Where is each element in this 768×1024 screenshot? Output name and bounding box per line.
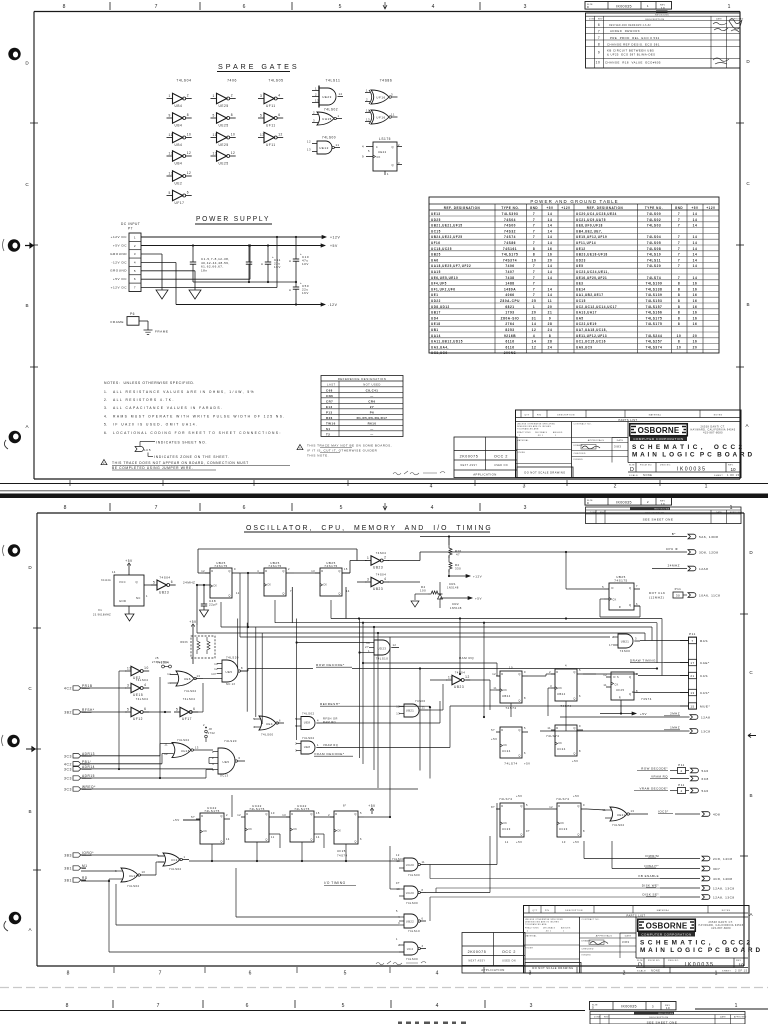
svg-text:Q: Q	[282, 592, 284, 596]
+5V pullup network	[180, 620, 215, 664]
svg-text:13: 13	[213, 151, 218, 155]
svg-text:RN06: RN06	[180, 641, 188, 644]
svg-text:9: 9	[549, 316, 551, 320]
sprocket hole bottom-left	[4, 431, 21, 449]
svg-text:74LS02: 74LS02	[302, 736, 315, 740]
spare inverter UF17 pins 5/6	[167, 190, 192, 205]
svg-text:MATERIAL: MATERIAL	[525, 935, 537, 938]
OR gate UE21 74LS02 ioc5	[602, 807, 636, 827]
svg-text:14: 14	[548, 264, 553, 268]
svg-text:DO NOT SCALE DRAWING: DO NOT SCALE DRAWING	[524, 471, 565, 475]
svg-text:74LS00: 74LS00	[406, 901, 418, 905]
svg-text:8: 8	[422, 889, 424, 892]
spare inverter UE25 pins 11/10	[211, 132, 236, 147]
svg-text:74LS02: 74LS02	[169, 867, 182, 871]
svg-text:9: 9	[234, 567, 236, 571]
svg-text:5: 5	[176, 707, 178, 711]
svg-text:& UF25 ECO 587 BL/MA-DES: & UF25 ECO 587 BL/MA-DES	[607, 53, 655, 57]
capacitor C48 22pF	[201, 598, 218, 610]
svg-text:9: 9	[524, 670, 526, 674]
svg-text:3: 3	[367, 577, 369, 581]
svg-text:8: 8	[579, 749, 581, 753]
svg-text:CHANGE REF DESIG. ECO 581: CHANGE REF DESIG. ECO 581	[607, 42, 660, 46]
sheet 2 revisions strip SEE SHEET ONE	[586, 507, 743, 524]
svg-text:UC24: UC24	[557, 747, 566, 751]
svg-text:DO NOT SCALE DRAWING: DO NOT SCALE DRAWING	[532, 966, 573, 970]
svg-text:11: 11	[422, 861, 426, 864]
svg-text:DATE: DATE	[720, 1016, 726, 1019]
svg-text:1: 1	[728, 4, 731, 10]
inverter UF12 74LS04	[125, 697, 149, 721]
svg-text:—: —	[370, 432, 373, 436]
sheet 2 top ruler	[64, 503, 733, 511]
svg-text:2: 2	[313, 111, 315, 115]
svg-text:2: 2	[231, 94, 233, 98]
svg-text:74LS04: 74LS04	[183, 697, 196, 701]
svg-text:CHECKED: CHECKED	[582, 949, 594, 951]
svg-text:6: 6	[187, 191, 189, 195]
I/O timing flip-flop UC22 74LS175 first	[191, 806, 230, 844]
svg-text:8: 8	[63, 4, 66, 10]
OSBORNE logo	[629, 423, 735, 441]
svg-text:UF11,UF14: UF11,UF14	[576, 241, 596, 245]
svg-text:74S00: 74S00	[620, 649, 631, 653]
svg-text:D: D	[592, 1006, 594, 1010]
svg-text:REVISIONS: REVISIONS	[654, 509, 669, 511]
svg-text:5A6: 5A6	[702, 789, 709, 793]
svg-text:6: 6	[598, 23, 600, 27]
svg-text:2: 2	[647, 500, 649, 504]
svg-text:.XX 1: .XX 1	[537, 435, 543, 437]
NAND gate UC20 74LS00 a	[392, 854, 426, 877]
svg-text:74LS10: 74LS10	[408, 929, 420, 933]
svg-text:(12MHZ): (12MHZ)	[649, 596, 664, 600]
svg-text:S C H E M A T I C , O C C 2: S C H E M A T I C , O C C 2	[640, 940, 751, 947]
svg-text:INDICATES ZONE ON THE SHEET.: INDICATES ZONE ON THE SHEET.	[154, 455, 230, 459]
svg-text:DESCRIPTION: DESCRIPTION	[645, 19, 664, 21]
input flag IORQ* 3B3	[64, 851, 94, 858]
sprocket hole top-left	[8, 48, 20, 60]
sprocket hole mid-left with arrow	[3, 239, 34, 252]
svg-text:D: D	[587, 5, 589, 9]
svg-text:7: 7	[678, 241, 680, 245]
svg-text:5: 5	[127, 707, 129, 711]
svg-text:21: 21	[690, 674, 694, 678]
svg-text:2: 2	[549, 670, 551, 674]
svg-text:4: 4	[212, 762, 214, 766]
svg-text:8: 8	[549, 334, 551, 338]
wire verticals dropping to decode cluster	[238, 619, 662, 818]
svg-text:5: 5	[524, 726, 526, 730]
svg-text:UB1: UB1	[431, 328, 439, 332]
svg-text:12: 12	[396, 854, 400, 857]
svg-text:B: B	[749, 793, 752, 798]
svg-text:10: 10	[144, 666, 149, 670]
separator band black between sheet1 and sheet2	[0, 494, 768, 499]
svg-text:5A6: 5A6	[702, 769, 709, 773]
application block	[462, 933, 525, 974]
svg-text:4: 4	[533, 334, 535, 338]
svg-text:APPLICATION: APPLICATION	[481, 968, 505, 972]
inverter UB23 74S04 ram rq	[446, 671, 470, 690]
svg-text:25: 25	[532, 299, 537, 303]
svg-text:CK: CK	[558, 743, 562, 745]
svg-text:Q: Q	[228, 594, 230, 598]
svg-text:14: 14	[693, 241, 698, 245]
svg-text:10V: 10V	[302, 262, 309, 266]
svg-text:14: 14	[693, 218, 698, 222]
svg-text:6: 6	[243, 505, 246, 511]
svg-text:16V: 16V	[302, 291, 309, 295]
svg-text:Q: Q	[310, 812, 312, 816]
svg-text:9: 9	[579, 724, 581, 728]
svg-text:3D7: 3D7	[713, 867, 720, 871]
svg-text:P O W E R A N D G R O U N: P O W E R A N D G R O U N D T A B L E	[530, 199, 617, 204]
svg-text:A: A	[745, 423, 749, 428]
svg-text:5?: 5?	[191, 815, 196, 819]
svg-text:9?: 9?	[526, 829, 531, 833]
svg-text:7: 7	[290, 589, 292, 593]
svg-text:P11: P11	[689, 632, 696, 636]
svg-text:UE2: UE2	[175, 182, 183, 186]
svg-text:UD4: UD4	[431, 316, 439, 320]
svg-text:20: 20	[548, 258, 553, 262]
svg-text:Q: Q	[629, 675, 631, 679]
svg-text:+5V: +5V	[125, 559, 133, 563]
svg-text:CK: CK	[337, 830, 341, 832]
svg-text:NOT USED: NOT USED	[363, 383, 381, 387]
wire ram rq horizontal	[362, 662, 500, 710]
divider flip-flop UB25 74S175 second	[257, 561, 294, 596]
svg-text:A: A	[289, 288, 291, 292]
svg-text:7406: 7406	[505, 264, 514, 268]
svg-text:DATE: DATE	[617, 439, 624, 442]
svg-text:DISK WE*: DISK WE*	[642, 884, 660, 888]
svg-text:31: 31	[532, 316, 537, 320]
svg-text:3B2: 3B2	[64, 711, 72, 715]
svg-text:7: 7	[533, 224, 535, 228]
svg-text:74LS138: 74LS138	[646, 287, 663, 291]
svg-text:2MHZ: 2MHZ	[670, 712, 680, 716]
svg-text:1: 1	[184, 855, 186, 859]
svg-text:D: D	[265, 569, 267, 573]
svg-text:74LS175: 74LS175	[646, 322, 663, 326]
svg-text:DESCRIPTION: DESCRIPTION	[565, 910, 583, 912]
svg-text:D: D	[614, 675, 616, 679]
svg-text:74S74: 74S74	[641, 697, 652, 701]
NAND gate UE5 74LS20 io decode	[212, 739, 245, 778]
wires oscillator section	[196, 549, 420, 627]
svg-text:CONTRACT NO.: CONTRACT NO.	[574, 423, 592, 426]
svg-text:16: 16	[548, 247, 553, 251]
svg-text:4: 4	[680, 789, 682, 793]
label REFRESH*	[320, 702, 347, 706]
label ROW DECODE*	[316, 663, 352, 667]
svg-text:UB23: UB23	[159, 590, 169, 594]
svg-text:D: D	[612, 586, 614, 590]
svg-text:REV: REV	[598, 19, 603, 21]
svg-text:FRACTIONS: FRACTIONS	[517, 431, 531, 434]
label RAM RQ	[459, 656, 474, 660]
svg-text:REVISIONS: REVISIONS	[655, 15, 669, 17]
svg-text:12: 12	[237, 813, 241, 817]
svg-text:12: 12	[231, 151, 236, 155]
svg-text:13: 13	[260, 133, 265, 137]
title block frame	[524, 906, 750, 974]
svg-text:UF16: UF16	[431, 241, 440, 245]
svg-text:74LS04: 74LS04	[136, 678, 149, 682]
connector P7 DC INPUT	[110, 222, 141, 292]
svg-text:UB21: UB21	[406, 709, 414, 713]
svg-text:12: 12	[549, 805, 553, 809]
svg-text:-12V DC: -12V DC	[111, 260, 127, 264]
svg-text:APPROVALS: APPROVALS	[588, 439, 605, 442]
svg-text:NEXT ASSY: NEXT ASSY	[461, 464, 478, 467]
svg-text:PRE PROD REL ECO # 532: PRE PROD REL ECO # 532	[610, 36, 660, 40]
svg-text:74LS00: 74LS00	[406, 957, 418, 961]
svg-text:ALL RESISTANCE VALUES ARE IN O: ALL RESISTANCE VALUES ARE IN OHMS, 1/4W,…	[113, 390, 255, 394]
svg-text:THIS TRACE DOES NOT APPEAR ON: THIS TRACE DOES NOT APPEAR ON BOARD, CON…	[112, 461, 249, 465]
svg-text:R: R	[619, 606, 621, 609]
svg-text:P/N: P/N	[545, 910, 550, 912]
flip-flop UC24 74LS74 lower second	[546, 724, 583, 763]
svg-text:74LS03: 74LS03	[647, 224, 661, 228]
svg-text:74LS175: 74LS175	[294, 807, 310, 811]
svg-text:7: 7	[636, 584, 638, 588]
svg-text:74LS04: 74LS04	[136, 697, 149, 701]
svg-text:D: D	[201, 814, 203, 818]
svg-text:8: 8	[678, 316, 680, 320]
svg-text:9: 9	[598, 51, 600, 55]
svg-text:UE5: UE5	[576, 264, 583, 268]
svg-text:10: 10	[214, 662, 218, 666]
sheet 2 left zone labels	[28, 565, 41, 932]
svg-text:E13: E13	[326, 405, 333, 409]
svg-text:+5V: +5V	[546, 206, 553, 210]
handwritten release note	[393, 471, 445, 475]
svg-text:24MHZ: 24MHZ	[668, 564, 680, 568]
flag CPU phi 3D8 12D8	[420, 547, 719, 554]
svg-text:C: C	[28, 686, 32, 691]
svg-text:FRAME: FRAME	[111, 320, 124, 324]
svg-text:R1,R5,R6-R9,R17: R1,R5,R6-R9,R17	[357, 416, 388, 420]
svg-text:UC24: UC24	[502, 749, 511, 753]
svg-text:CHECKED: CHECKED	[574, 453, 586, 455]
svg-text:74S04: 74S04	[376, 551, 387, 555]
svg-text:CR2: CR2	[452, 602, 459, 606]
I/O timing flip-flop UF25 74S74	[328, 804, 364, 858]
ground symbol right	[189, 290, 201, 299]
svg-text:6C8: 6C8	[702, 777, 709, 781]
svg-text:74S04: 74S04	[504, 218, 516, 222]
svg-text:1: 1	[705, 484, 708, 490]
spare inverter UB4 pins 11/10	[167, 132, 192, 147]
svg-text:9: 9	[362, 155, 364, 159]
svg-text:QTY: QTY	[524, 415, 529, 417]
svg-text:74S86: 74S86	[380, 79, 393, 83]
input flag ADR15 3C3	[64, 774, 95, 781]
spare inverter UF11 pins 3/4	[258, 93, 283, 108]
svg-text:1: 1	[555, 435, 556, 437]
svg-text:UC21: UC21	[171, 858, 180, 862]
svg-text:12A8: 12A8	[699, 567, 708, 571]
svg-text:D: D	[211, 569, 213, 573]
svg-text:13: 13	[197, 674, 201, 678]
svg-text:6: 6	[144, 707, 146, 711]
svg-text:6: 6	[524, 751, 526, 755]
svg-text:11: 11	[164, 743, 168, 747]
svg-text:2 OF 15: 2 OF 15	[735, 968, 748, 972]
svg-text:MUE*: MUE*	[700, 704, 710, 708]
svg-text:UA14: UA14	[431, 334, 441, 338]
svg-text:APPROVALS: APPROVALS	[596, 935, 613, 938]
svg-text:3: 3	[550, 684, 552, 688]
spare inverter UE25 pins 5/8	[211, 113, 236, 128]
svg-text:REF. DESIGNATION: REF. DESIGNATION	[444, 206, 481, 210]
wire +5V rail	[141, 245, 325, 247]
svg-text:2: 2	[103, 462, 105, 465]
svg-text:3: 3	[127, 683, 129, 687]
svg-text:NOTES: NOTES	[714, 415, 723, 417]
svg-text:CK: CK	[248, 829, 252, 831]
svg-text:1.: 1.	[104, 390, 108, 394]
svg-text:LS175: LS175	[379, 137, 391, 141]
svg-text:74LS257: 74LS257	[646, 340, 663, 344]
svg-text:14: 14	[693, 212, 698, 216]
svg-text:74LS74: 74LS74	[556, 797, 569, 801]
svg-text:3: 3	[313, 119, 315, 123]
wire +12V rail	[141, 236, 326, 238]
svg-text:9: 9	[169, 113, 171, 117]
svg-text:ADR15: ADR15	[82, 774, 95, 778]
svg-text:+12V: +12V	[706, 206, 716, 210]
svg-text:USED ON: USED ON	[494, 464, 508, 467]
svg-text:7: 7	[533, 229, 535, 233]
svg-text:UB4: UB4	[175, 143, 183, 147]
input flag PR1B 4C2	[64, 684, 92, 691]
svg-text:11: 11	[169, 133, 173, 137]
svg-text:—: —	[370, 394, 373, 398]
svg-text:16: 16	[693, 287, 698, 291]
svg-text:1: 1	[563, 931, 564, 933]
svg-text:D: D	[749, 550, 753, 555]
flip-flop UB24 74S74 second	[549, 664, 583, 709]
svg-text:10: 10	[396, 888, 400, 891]
svg-text:Q: Q	[573, 752, 575, 756]
svg-text:13: 13	[690, 691, 694, 695]
svg-text:Q: Q	[310, 838, 312, 842]
svg-text:2C8, 14C8: 2C8, 14C8	[713, 857, 733, 861]
svg-text:1C5: 1C5	[144, 448, 151, 452]
drawing number row	[636, 958, 748, 972]
+12V arrow feed	[449, 575, 482, 579]
svg-text:74LS02: 74LS02	[324, 108, 338, 112]
svg-text:8: 8	[678, 293, 680, 297]
svg-text:2: 2	[187, 94, 189, 98]
divider flip-flop UB25 74S175 first	[197, 561, 240, 598]
svg-text:12: 12	[366, 109, 370, 113]
flip-flop UC23 74LS74 right	[549, 794, 587, 844]
svg-text:74LS157: 74LS157	[646, 305, 663, 309]
svg-text:LAST: LAST	[327, 383, 336, 387]
svg-text:UE6,UE5,UE10: UE6,UE5,UE10	[431, 276, 458, 280]
svg-text:12A8, 13C8: 12A8, 13C8	[713, 895, 735, 899]
svg-text:74LS175: 74LS175	[249, 807, 265, 811]
svg-text:UC20,UC4,UC28,UE24: UC20,UC4,UC28,UE24	[576, 212, 617, 216]
svg-text:P11: P11	[678, 763, 684, 767]
svg-text:I K 0 0 0 3 5: I K 0 0 0 3 5	[685, 962, 713, 968]
svg-text:A: A	[749, 912, 753, 917]
svg-text:415-887-8080: 415-887-8080	[703, 432, 723, 435]
svg-text:DC INPUT: DC INPUT	[121, 222, 140, 226]
svg-text:6: 6	[422, 918, 424, 921]
svg-text:M A I N L O G I C P C B O A: M A I N L O G I C P C B O A R D	[632, 452, 753, 459]
svg-text:7407: 7407	[505, 270, 514, 274]
svg-text:UH15: UH15	[181, 749, 190, 753]
svg-text:D: D	[321, 569, 323, 573]
svg-text:SCALE: SCALE	[637, 969, 646, 972]
svg-text:UE12: UE12	[319, 146, 329, 150]
svg-text:Q: Q	[520, 804, 522, 808]
POWER SUPPLY heading	[195, 216, 272, 224]
sheet 3 revisions strip	[590, 1012, 747, 1024]
svg-text:16: 16	[693, 282, 698, 286]
svg-text:+5V DC: +5V DC	[113, 244, 127, 248]
svg-text:6: 6	[279, 719, 281, 723]
svg-text:UE4: UE4	[266, 722, 273, 726]
svg-text:A: A	[261, 262, 263, 266]
svg-text:22pF: 22pF	[209, 603, 218, 607]
svg-text:UA3,UA4,: UA3,UA4,	[431, 345, 449, 349]
svg-text:C: C	[749, 670, 753, 675]
svg-text:IF IT IS, CUT IT, OTHERWISE GU: IF IT IS, CUT IT, OTHERWISE GUIDER	[307, 449, 378, 453]
svg-text:UB25: UB25	[431, 253, 441, 257]
svg-text:ADR14: ADR14	[82, 765, 95, 769]
svg-text:+12V: +12V	[473, 575, 482, 579]
svg-text:14: 14	[226, 837, 230, 841]
svg-text:8: 8	[533, 253, 535, 257]
svg-text:MATERIAL: MATERIAL	[517, 439, 529, 442]
svg-text:DWG NO.: DWG NO.	[660, 465, 671, 467]
svg-text:16: 16	[693, 305, 698, 309]
svg-text:/2732: /2732	[207, 731, 216, 735]
spare inverter UF11 pins 13/12	[258, 132, 283, 147]
svg-text:CAE*: CAE*	[700, 661, 710, 665]
svg-text:UC22,UE19: UC22,UE19	[576, 322, 597, 326]
svg-text:12: 12	[167, 672, 171, 676]
svg-text:S C H E M A T I C , O C C 2: S C H E M A T I C , O C C 2	[632, 444, 743, 451]
svg-text:200NS: 200NS	[504, 351, 516, 355]
svg-text:14: 14	[693, 258, 698, 262]
jumper J8 2732	[203, 723, 215, 742]
svg-text:7: 7	[533, 282, 535, 286]
svg-text:UC23: UC23	[502, 827, 511, 831]
svg-text:74LS02: 74LS02	[184, 689, 197, 693]
svg-text:5A6, 13D8: 5A6, 13D8	[699, 535, 718, 539]
sheet 3 partial heading	[398, 1022, 466, 1024]
svg-text:10: 10	[509, 666, 513, 670]
svg-text:5: 5	[344, 971, 347, 977]
svg-text:1488: 1488	[505, 282, 514, 286]
svg-text:74S04: 74S04	[376, 573, 387, 577]
svg-text:3C3: 3C3	[64, 777, 72, 781]
svg-text:CK: CK	[615, 684, 619, 687]
svg-text:3: 3	[391, 93, 393, 97]
svg-text:CK: CK	[613, 599, 617, 602]
svg-text:20: 20	[532, 311, 537, 315]
capacitor C11 22u 16V	[261, 244, 281, 283]
svg-text:NC: NC	[136, 596, 141, 600]
